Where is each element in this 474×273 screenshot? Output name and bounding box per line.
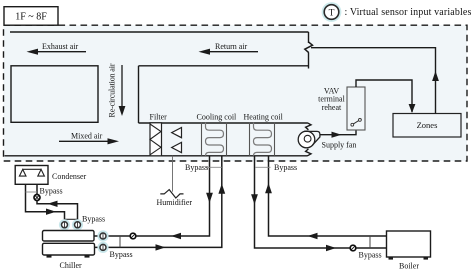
wire return duct bottom: [139, 65, 309, 67]
pipe heating supply up: [265, 156, 386, 236]
heating coil U2: [250, 123, 275, 156]
boiler box: [387, 231, 431, 260]
valve chilled return: [97, 230, 108, 241]
wire recirculation right wall: [138, 66, 140, 123]
pipe cooling supply up: [95, 156, 226, 248]
valve condenser: [34, 195, 40, 201]
svg-text:T: T: [329, 8, 335, 18]
pipe condenser return: [37, 184, 78, 230]
valve chilled supply: [97, 242, 108, 253]
arrow chilled water supply: [156, 244, 166, 250]
AHU dashed enclosure: [4, 25, 468, 161]
wire mixed air duct bottom: [5, 155, 308, 157]
wire VAV to zones: [356, 80, 415, 113]
svg-text:Condenser: Condenser: [52, 172, 87, 181]
svg-text:Bypass: Bypass: [110, 250, 133, 259]
valve hot water: [350, 245, 356, 251]
svg-text:Bypass: Bypass: [82, 215, 105, 224]
svg-text:Heating coil: Heating coil: [244, 113, 284, 122]
pipe condenser supply: [26, 184, 65, 230]
supply fan M1: [298, 131, 320, 148]
bypass connector condenser: [26, 191, 38, 193]
svg-text:Chiller: Chiller: [60, 261, 83, 270]
svg-text:Mixed air: Mixed air: [71, 132, 103, 141]
svg-text:Return air: Return air: [215, 42, 248, 51]
humidifier H1: [160, 156, 183, 198]
svg-text:reheat: reheat: [322, 103, 342, 112]
valve chilled mid: [130, 233, 136, 239]
duct break bottom of fan: [306, 149, 311, 156]
svg-text:Filter: Filter: [150, 113, 168, 122]
arrow hot water return: [326, 245, 336, 251]
arrow condenser supply: [46, 209, 56, 215]
svg-text:Boiler: Boiler: [399, 262, 419, 271]
arrow hot water supply: [308, 233, 318, 239]
wire zones to return duct: [311, 48, 439, 114]
wire fan to VAV: [320, 130, 356, 138]
valve chiller top left: [59, 219, 70, 230]
chiller box: [43, 231, 95, 258]
svg-text:Bypass: Bypass: [274, 163, 297, 172]
exhaust air arrow: [27, 49, 87, 55]
svg-text:Exhaust air: Exhaust air: [42, 42, 79, 51]
bypass connector boiler: [369, 236, 371, 248]
separator block: [11, 66, 98, 123]
VAV terminal box: [347, 87, 365, 130]
svg-text:Bypass: Bypass: [185, 163, 208, 172]
zones box: [393, 114, 461, 138]
bypass connector heating: [255, 166, 271, 168]
mixed air arrow: [59, 138, 119, 144]
svg-text:Supply fan: Supply fan: [322, 141, 357, 150]
svg-text:Re-circulation air: Re-circulation air: [108, 63, 117, 117]
node 1F~8F label box: [4, 7, 58, 26]
valve chiller top right: [72, 219, 83, 230]
VAV label: [318, 87, 345, 113]
cooling coil U1: [202, 123, 227, 156]
duct break top of fan: [306, 123, 311, 130]
svg-text:Bypass: Bypass: [359, 251, 382, 260]
damper triangles: [172, 128, 182, 153]
bypass connector cooling: [206, 166, 222, 168]
arrow condenser return: [48, 201, 58, 207]
wire coil duct top: [139, 122, 308, 124]
return air arrow: [199, 49, 259, 55]
condenser box: [15, 166, 48, 185]
wire duct right end: [305, 32, 313, 69]
svg-text:: Virtual sensor input variabl: : Virtual sensor input variables: [345, 7, 472, 18]
svg-text:Cooling coil: Cooling coil: [197, 113, 238, 122]
pipe heating return down: [251, 156, 386, 248]
svg-text:1F ~ 8F: 1F ~ 8F: [15, 12, 47, 23]
sensor legend T: [322, 2, 342, 22]
svg-text:Humidifier: Humidifier: [157, 198, 193, 207]
svg-text:Zones: Zones: [417, 120, 438, 130]
bypass connector chiller top: [65, 218, 78, 220]
wire duct top: [10, 31, 309, 33]
arrow chilled water return: [171, 233, 181, 239]
filter F: [150, 123, 162, 156]
pipe cooling return down: [94, 156, 213, 236]
svg-text:Bypass: Bypass: [40, 186, 63, 195]
bypass connector chilled: [119, 236, 121, 247]
recirculation air arrow: [119, 65, 126, 116]
